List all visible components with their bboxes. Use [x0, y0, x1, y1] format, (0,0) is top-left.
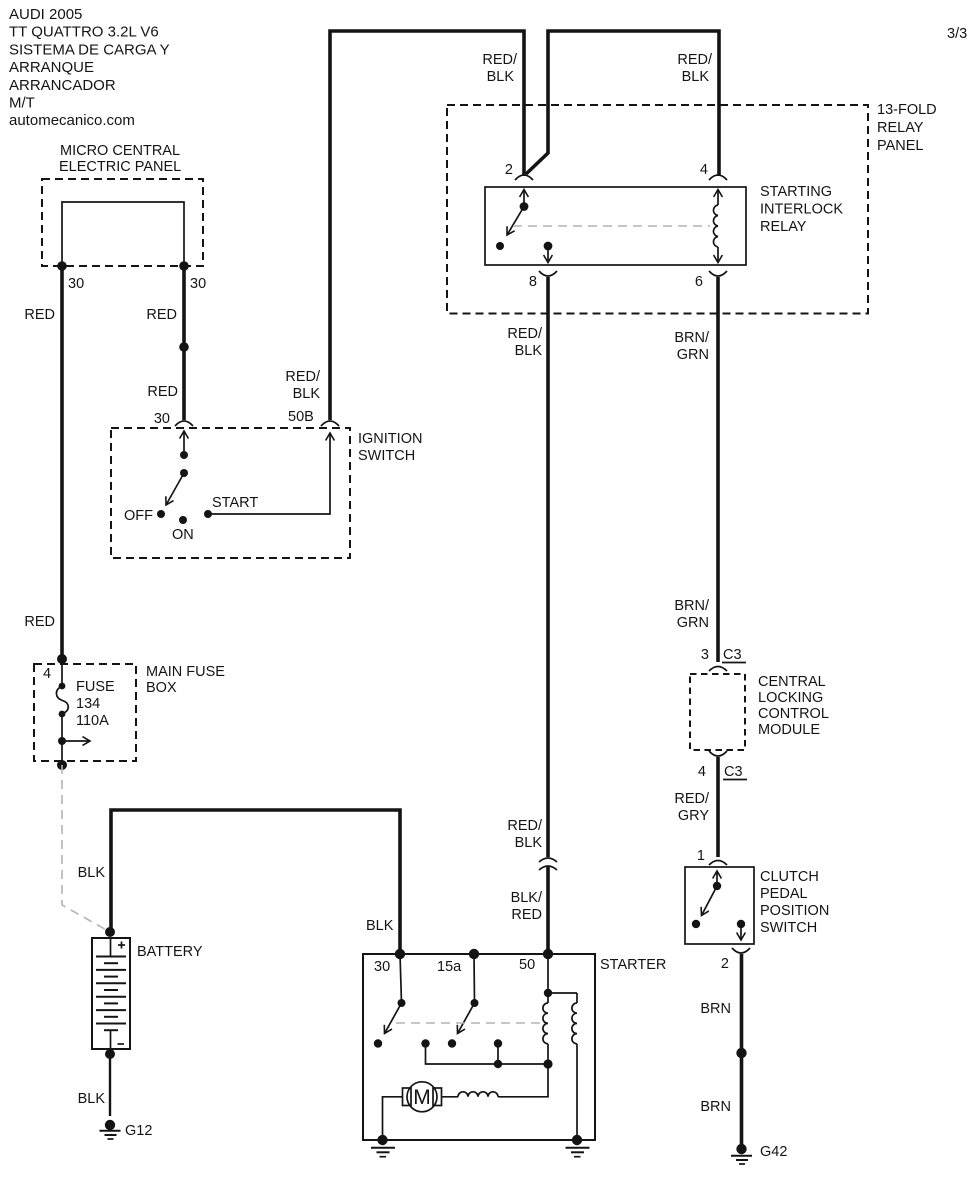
- pin 8 connector arc: [539, 271, 557, 276]
- svg-text:RED/: RED/: [677, 52, 713, 68]
- svg-text:C3: C3: [724, 764, 743, 780]
- svg-text:RELAY: RELAY: [760, 219, 807, 235]
- svg-text:RED: RED: [24, 614, 55, 630]
- svg-text:BRN: BRN: [700, 1001, 731, 1017]
- starter box: [363, 954, 595, 1140]
- pin 2 arrow: [523, 190, 525, 207]
- svg-text:M/T: M/T: [9, 95, 35, 112]
- svg-text:FUSE: FUSE: [76, 679, 115, 695]
- starter contact dot: [448, 1039, 456, 1047]
- pin 1 arrow: [716, 871, 718, 886]
- svg-text:RED/: RED/: [507, 326, 543, 342]
- inline connector: [539, 858, 557, 862]
- svg-text:30: 30: [374, 959, 390, 975]
- svg-text:TT QUATTRO 3.2L V6: TT QUATTRO 3.2L V6: [9, 24, 159, 41]
- pin 30 junction dot: [395, 949, 405, 959]
- pin 8 arrow down: [547, 246, 549, 263]
- svg-text:MAIN FUSE: MAIN FUSE: [146, 664, 225, 680]
- wire RED/GRY module pin 4 to clutch switch pin 1: [716, 757, 720, 857]
- contact START dot: [204, 510, 212, 518]
- svg-text:GRN: GRN: [677, 347, 709, 363]
- ground G12: [100, 1120, 121, 1139]
- starter ground right: [566, 1135, 590, 1157]
- starter internal bus wire: [426, 1044, 549, 1065]
- svg-text:6: 6: [695, 274, 703, 290]
- pin 1 connector arc: [709, 861, 727, 866]
- svg-text:1: 1: [697, 848, 705, 864]
- relay actuation gray dashed link: [513, 225, 710, 227]
- starter bus junction dot: [543, 1059, 552, 1068]
- ground G42: [731, 1144, 752, 1164]
- svg-text:2: 2: [505, 162, 513, 178]
- clutch contact dot: [692, 920, 700, 928]
- svg-text:BLK: BLK: [78, 1091, 106, 1107]
- clutch pedal position switch box: [685, 867, 754, 944]
- relay switch arm arrow: [507, 207, 524, 236]
- relay contact dot: [496, 242, 504, 250]
- svg-text:ARRANQUE: ARRANQUE: [9, 59, 94, 76]
- svg-text:13-FOLD: 13-FOLD: [877, 102, 937, 118]
- svg-text:CLUTCH: CLUTCH: [760, 869, 819, 885]
- pin 3 connector arc: [709, 667, 727, 672]
- svg-text:OFF: OFF: [124, 508, 153, 524]
- pin 4 arrow: [717, 190, 719, 206]
- svg-text:SWITCH: SWITCH: [760, 920, 817, 936]
- fuse output arrow: [62, 740, 90, 742]
- svg-text:STARTING: STARTING: [760, 184, 832, 200]
- svg-text:30: 30: [190, 276, 206, 292]
- battery negative junction dot: [105, 1049, 115, 1059]
- starter contact dot: [374, 1039, 382, 1047]
- connector C3 label bottom: [723, 764, 747, 780]
- svg-text:BRN/: BRN/: [674, 330, 710, 346]
- pin 30 arrow: [183, 431, 185, 455]
- coil to pin 6 arrow down: [717, 247, 719, 263]
- svg-text:BRN/: BRN/: [674, 598, 710, 614]
- svg-text:AUDI 2005: AUDI 2005: [9, 6, 82, 23]
- starter switch 15a pivot dot: [471, 999, 479, 1007]
- svg-text:3: 3: [701, 647, 709, 663]
- svg-text:ON: ON: [172, 527, 194, 543]
- svg-text:50: 50: [519, 957, 535, 973]
- micro central electric panel dashed box: [42, 179, 203, 266]
- svg-text:PANEL: PANEL: [877, 138, 923, 154]
- solenoid hold-in coil: [572, 1003, 577, 1044]
- starter contact dot: [494, 1039, 502, 1047]
- wire BRN clutch switch to ground: [740, 954, 744, 1145]
- svg-text:RED: RED: [147, 384, 178, 400]
- svg-text:BLK: BLK: [682, 69, 710, 85]
- motor ground lead: [383, 1097, 403, 1140]
- svg-text:START: START: [212, 495, 258, 511]
- svg-text:2: 2: [721, 956, 729, 972]
- switch wiper dot: [180, 469, 188, 477]
- solenoid junction dot: [544, 989, 552, 997]
- svg-text:15a: 15a: [437, 959, 462, 975]
- svg-text:134: 134: [76, 696, 100, 712]
- main fuse box dashed box: [34, 664, 136, 761]
- svg-text:BLK: BLK: [366, 918, 394, 934]
- clutch switch arm arrow: [702, 886, 718, 916]
- svg-text:ARRANCADOR: ARRANCADOR: [9, 77, 116, 94]
- svg-text:RED/: RED/: [285, 369, 321, 385]
- relay contact dot above pin 8: [544, 242, 553, 251]
- svg-text:C3: C3: [723, 647, 742, 663]
- svg-text:BLK/: BLK/: [511, 890, 543, 906]
- svg-text:BLK: BLK: [515, 835, 543, 851]
- wire RED/BLK ignition 50B up and over to relay pin 2: [330, 31, 524, 420]
- svg-text:BATTERY: BATTERY: [137, 944, 203, 960]
- solenoid top link: [548, 992, 577, 994]
- switch wiper dot: [180, 451, 188, 459]
- pin 50B connector arc: [321, 421, 339, 426]
- svg-text:PEDAL: PEDAL: [760, 886, 808, 902]
- micro central electric panel internal bus: [62, 202, 184, 266]
- svg-text:CENTRAL: CENTRAL: [758, 674, 826, 690]
- svg-text:G42: G42: [760, 1144, 787, 1160]
- 13-fold relay panel dashed box: [447, 105, 868, 314]
- fuse 134 110A element: [61, 659, 63, 685]
- svg-text:IGNITION: IGNITION: [358, 431, 422, 447]
- starter contact dot: [421, 1039, 429, 1047]
- wire RED/BLK relay pin 2 jumper over to pin 4: [526, 31, 719, 176]
- svg-text:GRN: GRN: [677, 615, 709, 631]
- battery positive junction dot: [105, 927, 115, 937]
- wire BLK/RED connector to starter 50: [546, 867, 550, 954]
- junction dot fuse out: [57, 760, 67, 770]
- title text block: [9, 6, 170, 129]
- svg-text:RED/: RED/: [482, 52, 518, 68]
- svg-text:RELAY: RELAY: [877, 120, 924, 136]
- dashed gray wire fuse box to battery: [62, 765, 110, 932]
- starter switch 30 pivot dot: [398, 999, 406, 1007]
- svg-text:BLK: BLK: [293, 386, 321, 402]
- fuse output tap dot: [58, 737, 66, 745]
- svg-text:POSITION: POSITION: [760, 903, 829, 919]
- svg-text:RED: RED: [511, 907, 542, 923]
- motor M: [403, 1082, 442, 1112]
- wire RED left (panel to fuse box): [60, 266, 64, 659]
- pin 2 arrow down: [740, 924, 742, 940]
- svg-text:CONTROL: CONTROL: [758, 706, 829, 722]
- svg-text:MODULE: MODULE: [758, 722, 820, 738]
- pin 6 connector arc: [709, 271, 727, 276]
- starter bus junction dot: [494, 1060, 502, 1068]
- starter ground left: [371, 1135, 395, 1157]
- junction dot 30 right: [179, 261, 189, 271]
- svg-text:ELECTRIC PANEL: ELECTRIC PANEL: [59, 159, 181, 175]
- contact ON dot: [179, 516, 187, 524]
- central locking control module dashed box: [690, 674, 745, 750]
- svg-text:RED/: RED/: [507, 818, 543, 834]
- svg-text:3/3: 3/3: [947, 26, 967, 42]
- pin 30 connector arc: [175, 421, 193, 426]
- relay wiper dot: [520, 202, 529, 211]
- relay coil: [713, 205, 718, 247]
- pin 2 connector arc: [732, 948, 750, 953]
- pin 50 junction dot: [543, 949, 553, 959]
- svg-text:M: M: [413, 1086, 431, 1109]
- clutch wiper dot: [713, 882, 721, 890]
- wire BLK battery positive to starter 30: [111, 810, 400, 954]
- svg-text:BLK: BLK: [78, 865, 106, 881]
- starter contact lead: [497, 1044, 499, 1065]
- svg-text:RED/: RED/: [674, 791, 710, 807]
- svg-text:30: 30: [154, 411, 170, 427]
- svg-text:RED: RED: [146, 307, 177, 323]
- svg-text:8: 8: [529, 274, 537, 290]
- ignition switch dashed box: [111, 428, 350, 558]
- svg-text:BLK: BLK: [487, 69, 515, 85]
- wire RED/BLK relay pin 8 to inline connector: [546, 277, 550, 857]
- pin 4 connector arc: [709, 175, 727, 180]
- svg-text:4: 4: [43, 666, 51, 682]
- battery: [92, 938, 130, 1049]
- pin 4 connector arc bottom: [709, 751, 727, 756]
- motor series winding: [442, 1064, 549, 1097]
- wire RED middle (panel to ignition 30): [182, 266, 186, 420]
- junction dot fuse in: [57, 654, 67, 664]
- svg-text:BOX: BOX: [146, 680, 177, 696]
- hold-in coil ground lead: [576, 1044, 578, 1140]
- starter switch 15a arm arrow: [458, 1003, 475, 1034]
- connector C3 label top: [722, 647, 746, 663]
- svg-text:4: 4: [700, 162, 708, 178]
- svg-text:automecanico.com: automecanico.com: [9, 112, 135, 129]
- fuse lower lead: [61, 741, 63, 765]
- svg-text:BLK: BLK: [515, 343, 543, 359]
- starter actuation gray dashed link: [396, 1022, 544, 1024]
- svg-text:30: 30: [68, 276, 84, 292]
- svg-text:110A: 110A: [76, 713, 109, 729]
- wire BLK battery negative to ground: [109, 1054, 111, 1116]
- solenoid pull-in coil: [543, 1003, 548, 1044]
- starting interlock relay box: [485, 187, 746, 265]
- svg-text:MICRO CENTRAL: MICRO CENTRAL: [60, 143, 180, 159]
- clutch output contact dot: [737, 920, 745, 928]
- svg-text:SISTEMA DE CARGA Y: SISTEMA DE CARGA Y: [9, 41, 170, 58]
- pin 15a junction dot: [469, 949, 479, 959]
- svg-text:RED: RED: [24, 307, 55, 323]
- svg-text:G12: G12: [125, 1123, 152, 1139]
- svg-text:LOCKING: LOCKING: [758, 690, 823, 706]
- svg-text:GRY: GRY: [678, 808, 709, 824]
- junction dot 30 left: [57, 261, 67, 271]
- wire START contact to pin 50B: [208, 433, 330, 514]
- solenoid feed from pin 50: [547, 954, 549, 993]
- svg-text:50B: 50B: [288, 409, 314, 425]
- starter switch 15a lead: [473, 954, 476, 1003]
- switch arm arrow to OFF: [166, 473, 184, 505]
- svg-text:BRN: BRN: [700, 1099, 731, 1115]
- junction dot: [736, 1048, 746, 1058]
- pin 2 connector arc: [515, 175, 533, 180]
- svg-text:SWITCH: SWITCH: [358, 448, 415, 464]
- starter switch 30 arm arrow: [385, 1003, 402, 1034]
- svg-text:INTERLOCK: INTERLOCK: [760, 202, 843, 218]
- contact OFF dot: [157, 510, 165, 518]
- svg-text:STARTER: STARTER: [600, 957, 666, 973]
- wire BRN/GRN relay pin 6 to module pin 3: [716, 277, 720, 662]
- junction dot: [179, 342, 189, 352]
- starter switch 30 lead: [400, 954, 402, 1003]
- svg-text:4: 4: [698, 764, 706, 780]
